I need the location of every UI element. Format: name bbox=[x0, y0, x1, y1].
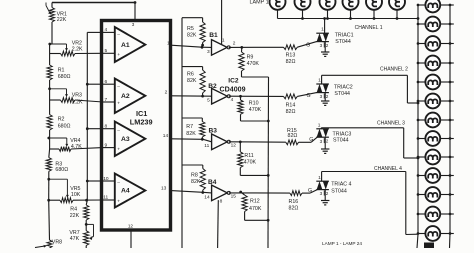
svg-text:ST044: ST044 bbox=[335, 39, 351, 45]
svg-text:CHANNEL 1: CHANNEL 1 bbox=[355, 25, 383, 31]
svg-text:22K: 22K bbox=[57, 17, 67, 23]
svg-text:R8: R8 bbox=[191, 172, 198, 178]
svg-text:2.2K: 2.2K bbox=[72, 99, 83, 105]
svg-text:–: – bbox=[117, 84, 120, 89]
svg-text:680Ω: 680Ω bbox=[55, 167, 68, 173]
svg-text:3: 3 bbox=[320, 139, 323, 144]
svg-text:7: 7 bbox=[105, 97, 108, 103]
svg-text:1: 1 bbox=[318, 175, 321, 181]
svg-text:G: G bbox=[307, 93, 311, 99]
svg-text:82K: 82K bbox=[187, 78, 197, 84]
svg-text:LAMP 1 - LAMP 24: LAMP 1 - LAMP 24 bbox=[322, 241, 362, 246]
svg-text:R1: R1 bbox=[58, 67, 65, 73]
svg-text:CHANNEL 4: CHANNEL 4 bbox=[374, 166, 402, 172]
svg-text:R16: R16 bbox=[289, 199, 299, 205]
svg-text:ST044: ST044 bbox=[331, 188, 347, 194]
svg-text:TRIAC 4: TRIAC 4 bbox=[331, 182, 351, 188]
svg-text:VR7: VR7 bbox=[69, 230, 79, 236]
svg-text:+: + bbox=[117, 102, 120, 107]
svg-text:3: 3 bbox=[207, 49, 210, 55]
svg-text:10: 10 bbox=[103, 176, 109, 182]
svg-text:9: 9 bbox=[105, 142, 108, 148]
svg-text:TRIAC3: TRIAC3 bbox=[333, 131, 352, 137]
svg-text:VR3: VR3 bbox=[72, 93, 82, 99]
svg-text:R7: R7 bbox=[186, 124, 193, 130]
svg-text:82K: 82K bbox=[191, 179, 201, 185]
svg-text:3: 3 bbox=[320, 43, 323, 48]
svg-text:G: G bbox=[308, 188, 312, 194]
svg-text:470K: 470K bbox=[244, 160, 257, 166]
svg-text:3: 3 bbox=[320, 191, 323, 196]
svg-text:8: 8 bbox=[220, 198, 223, 204]
svg-text:12: 12 bbox=[128, 224, 134, 229]
svg-text:2: 2 bbox=[165, 89, 168, 95]
svg-text:2: 2 bbox=[326, 138, 329, 143]
svg-text:LM239: LM239 bbox=[130, 117, 153, 126]
svg-text:4: 4 bbox=[105, 27, 108, 33]
svg-text:+: + bbox=[117, 147, 120, 152]
svg-text:82Ω: 82Ω bbox=[289, 205, 299, 211]
svg-text:VR8: VR8 bbox=[52, 239, 62, 245]
svg-text:2: 2 bbox=[326, 94, 329, 99]
svg-text:R4: R4 bbox=[70, 207, 77, 213]
svg-text:VR2: VR2 bbox=[72, 40, 82, 46]
svg-text:2.2K: 2.2K bbox=[72, 47, 83, 53]
svg-text:82Ω: 82Ω bbox=[286, 59, 296, 65]
svg-text:1: 1 bbox=[318, 78, 321, 84]
svg-text:10K: 10K bbox=[71, 192, 81, 198]
svg-text:TRIAC2: TRIAC2 bbox=[334, 85, 353, 91]
svg-text:22K: 22K bbox=[70, 213, 80, 219]
svg-text:CHANNEL 3: CHANNEL 3 bbox=[377, 121, 405, 127]
svg-text:2: 2 bbox=[326, 43, 329, 48]
svg-text:ST044: ST044 bbox=[333, 138, 349, 144]
svg-text:680Ω: 680Ω bbox=[58, 123, 71, 129]
svg-text:82K: 82K bbox=[186, 131, 196, 137]
svg-text:470K: 470K bbox=[247, 61, 260, 67]
svg-text:VR4: VR4 bbox=[70, 138, 80, 144]
svg-text:3: 3 bbox=[320, 94, 323, 99]
svg-text:R2: R2 bbox=[58, 117, 65, 123]
svg-text:+: + bbox=[117, 200, 120, 205]
svg-text:G: G bbox=[306, 42, 310, 48]
svg-text:R11: R11 bbox=[244, 153, 253, 159]
svg-text:470K: 470K bbox=[249, 206, 262, 212]
svg-text:R5: R5 bbox=[187, 26, 194, 32]
svg-text:R14: R14 bbox=[286, 103, 296, 109]
svg-text:G: G bbox=[309, 137, 313, 143]
svg-text:11: 11 bbox=[204, 143, 209, 149]
svg-text:1: 1 bbox=[318, 122, 321, 128]
svg-text:CHANNEL 2: CHANNEL 2 bbox=[380, 67, 408, 73]
svg-text:–: – bbox=[117, 33, 120, 38]
svg-text:82Ω: 82Ω bbox=[286, 109, 296, 115]
svg-text:B4: B4 bbox=[208, 179, 217, 186]
svg-text:B1: B1 bbox=[209, 32, 218, 39]
svg-text:3: 3 bbox=[132, 22, 135, 27]
svg-text:2: 2 bbox=[233, 40, 236, 46]
svg-text:4: 4 bbox=[231, 97, 234, 103]
svg-text:VR5: VR5 bbox=[70, 186, 80, 192]
svg-text:1: 1 bbox=[167, 40, 170, 46]
svg-text:–: – bbox=[117, 129, 120, 134]
svg-text:+: + bbox=[117, 53, 120, 58]
svg-text:A3: A3 bbox=[121, 136, 130, 143]
svg-text:–: – bbox=[117, 181, 120, 186]
svg-text:R9: R9 bbox=[247, 54, 254, 60]
svg-text:2: 2 bbox=[326, 191, 329, 196]
svg-text:IC2: IC2 bbox=[228, 77, 239, 84]
svg-text:A2: A2 bbox=[121, 93, 130, 100]
svg-text:14: 14 bbox=[163, 133, 169, 139]
svg-text:82Ω: 82Ω bbox=[288, 133, 298, 139]
svg-text:82K: 82K bbox=[187, 32, 197, 38]
svg-text:1: 1 bbox=[222, 38, 225, 44]
svg-text:12: 12 bbox=[231, 143, 237, 149]
svg-text:5: 5 bbox=[105, 48, 108, 54]
svg-text:R10: R10 bbox=[249, 100, 259, 106]
svg-text:A1: A1 bbox=[121, 42, 130, 49]
svg-text:6: 6 bbox=[105, 79, 108, 85]
svg-text:R13: R13 bbox=[286, 52, 296, 58]
svg-text:ST044: ST044 bbox=[334, 91, 350, 97]
svg-text:R12: R12 bbox=[250, 199, 260, 205]
svg-text:15: 15 bbox=[231, 194, 237, 200]
svg-text:470K: 470K bbox=[249, 107, 262, 113]
svg-text:1: 1 bbox=[321, 27, 324, 33]
svg-text:5: 5 bbox=[207, 98, 210, 104]
svg-text:LAMP 1: LAMP 1 bbox=[250, 0, 269, 6]
svg-text:CD4009: CD4009 bbox=[220, 85, 246, 93]
svg-text:4.7K: 4.7K bbox=[71, 144, 82, 150]
svg-text:B2: B2 bbox=[208, 83, 217, 90]
svg-text:B3: B3 bbox=[209, 128, 218, 135]
svg-text:TRIAC1: TRIAC1 bbox=[335, 33, 354, 39]
svg-text:680Ω: 680Ω bbox=[58, 74, 71, 80]
svg-text:A4: A4 bbox=[121, 188, 130, 195]
svg-text:14: 14 bbox=[204, 194, 210, 200]
svg-text:13: 13 bbox=[161, 185, 167, 191]
svg-text:R6: R6 bbox=[187, 72, 194, 78]
svg-text:8: 8 bbox=[105, 124, 108, 130]
svg-text:11: 11 bbox=[103, 195, 108, 201]
svg-text:47K: 47K bbox=[70, 236, 80, 242]
